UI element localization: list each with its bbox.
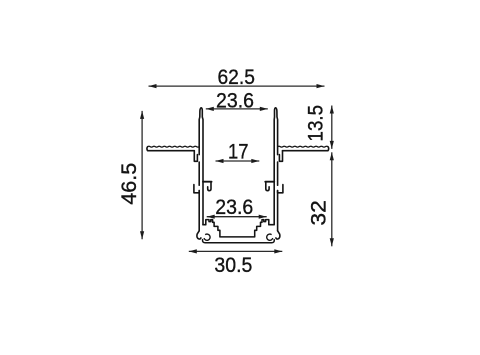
svg-text:23.6: 23.6 xyxy=(215,195,253,219)
svg-text:30.5: 30.5 xyxy=(214,253,252,277)
svg-text:23.6: 23.6 xyxy=(216,88,254,112)
svg-text:32: 32 xyxy=(307,200,331,226)
svg-text:17: 17 xyxy=(228,140,249,164)
svg-text:46.5: 46.5 xyxy=(117,163,141,205)
svg-text:13.5: 13.5 xyxy=(304,105,328,142)
svg-text:62.5: 62.5 xyxy=(217,65,255,89)
